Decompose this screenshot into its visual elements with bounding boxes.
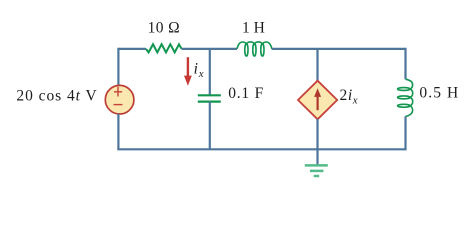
- resistor 10 ohm: [146, 44, 182, 52]
- capacitor C 0.1F bottom plate: [198, 100, 221, 102]
- wire bottom rail: [118, 149, 405, 150]
- wire dependent source branch lower: [316, 119, 318, 149]
- capacitor C 0.1F top plate: [198, 94, 221, 96]
- plus sign of source: [114, 87, 122, 97]
- inductor L1 loop 3: [261, 44, 264, 56]
- wire left branch upper: [117, 48, 119, 86]
- inductor L1 loop 2: [253, 44, 256, 56]
- wire left branch lower: [117, 114, 119, 150]
- wire right branch lower: [404, 116, 406, 149]
- inductor L1 loop 1: [245, 44, 248, 56]
- svg-text:1 H: 1 H: [242, 20, 265, 37]
- inductor L2 loop 2: [398, 96, 410, 99]
- wire top rail left segment (source to resistor): [118, 48, 146, 50]
- ground stub wire: [316, 149, 318, 165]
- svg-text:10 Ω: 10 Ω: [148, 20, 181, 37]
- wire top rail resistor to inductor: [182, 48, 237, 50]
- dependent source arrow head: [314, 88, 321, 97]
- svg-text:ix: ix: [194, 61, 205, 81]
- ground symbol line 2: [310, 170, 324, 173]
- ground symbol line 1: [305, 164, 328, 167]
- dependent source arrow shaft: [317, 97, 319, 111]
- dependent current source 2ix diamond: [298, 81, 337, 120]
- wire capacitor branch upper: [209, 49, 211, 95]
- wire dependent source branch upper: [316, 49, 318, 81]
- current arrow ix: [187, 57, 189, 76]
- svg-text:2ix: 2ix: [340, 87, 359, 107]
- ground symbol line 3: [314, 175, 320, 178]
- wire capacitor branch lower: [209, 102, 211, 150]
- voltage source Vs 20cos4t: [105, 85, 134, 114]
- svg-text:20 cos 4t V: 20 cos 4t V: [16, 88, 97, 105]
- wire top rail inductor to right corner: [272, 48, 406, 50]
- inductor L2 loop 3: [398, 104, 410, 107]
- svg-text:0.5 H: 0.5 H: [419, 85, 459, 102]
- wire right branch upper: [404, 48, 406, 79]
- minus sign of source: [114, 104, 123, 106]
- inductor L2 loop 1: [398, 88, 410, 91]
- inductor L2 0.5H coil arcs: [406, 79, 413, 116]
- svg-text:0.1 F: 0.1 F: [228, 85, 264, 102]
- inductor L1 1H coil arcs: [237, 42, 272, 49]
- current arrow ix head: [184, 76, 192, 86]
